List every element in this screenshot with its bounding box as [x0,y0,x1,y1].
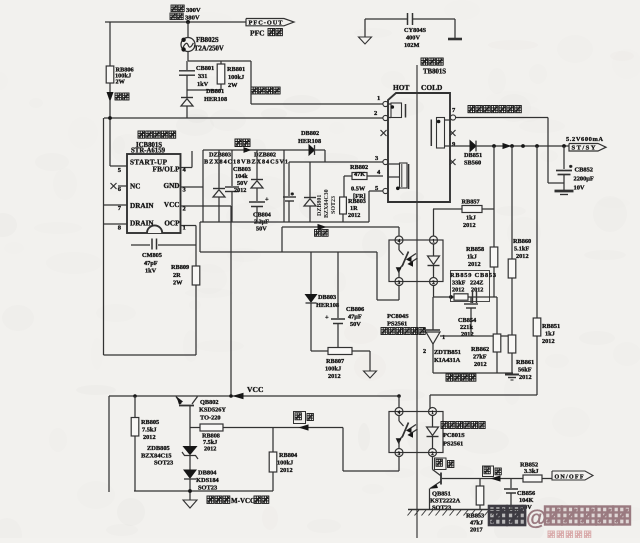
transistor QB851 KST2222A [440,473,442,485]
aux winding [400,163,408,188]
wire switch line to PC801 pin3 [342,428,344,472]
svg-text:100kJ: 100kJ [277,460,293,467]
svg-text:CB854: CB854 [458,317,477,324]
svg-text:56kF: 56kF [518,367,532,374]
svg-text:VCC: VCC [247,385,263,394]
wire KIA431 ref [440,335,512,337]
svg-text:DZB803: DZB803 [209,152,231,159]
pin 2 (PC801) [429,449,437,457]
wire PC801 pin2 to QB851 [432,457,434,470]
wire feedback node [433,296,497,298]
svg-text:VCC: VCC [164,201,180,209]
svg-text:RB809: RB809 [171,264,189,271]
svg-text:PC801S: PC801S [443,432,465,439]
svg-text:2012: 2012 [234,187,246,194]
resistor RB803 1R [343,176,345,197]
svg-text:RB851: RB851 [542,323,560,330]
wire to PC804 emitter [376,252,378,300]
svg-text:TO-220: TO-220 [200,415,221,422]
wire drain rail to transformer pin2 [104,117,383,119]
capacitor CB803 [231,150,233,186]
svg-text:104k: 104k [235,173,248,180]
svg-text:RB861: RB861 [516,359,534,366]
svg-text:ZDTB851: ZDTB851 [434,349,461,356]
wire RB851 to PC801 LED [430,394,537,396]
svg-text:50V: 50V [237,180,248,187]
svg-text:HER108: HER108 [316,302,339,309]
svg-text:1kJ: 1kJ [467,254,477,261]
shunt regulator ZDTB851 KIA431A [432,297,434,330]
secondary winding [437,118,445,149]
wire arrow on VCC rail [234,393,243,398]
svg-text:RB857: RB857 [462,199,480,206]
svg-text:NC: NC [130,183,140,191]
resistor RB804 [272,428,274,453]
resistor RB809 [195,226,197,267]
pin 8 DRAIN [104,223,128,225]
pin 1 OCP [181,225,197,227]
fuse FB802S [187,22,189,38]
svg-text:2012: 2012 [463,222,476,229]
svg-text:3.3kJ: 3.3kJ [524,468,539,475]
wire pin5 return [369,190,383,192]
svg-text:DRAIN: DRAIN [130,220,154,228]
svg-text:RB858: RB858 [466,246,484,253]
svg-text:CB801: CB801 [196,65,214,72]
svg-text:BZX84C18VBZX84C5V1: BZX84C18VBZX84C5V1 [204,159,288,166]
svg-text:2012: 2012 [461,331,474,338]
capacitor CB801 [186,61,188,70]
svg-text:T2A/250V: T2A/250V [194,46,224,53]
ground (CB852) [555,190,574,193]
capacitor CB802 [288,162,290,196]
svg-text:DB851: DB851 [464,152,482,159]
label 开关 (ON/OFF) [483,466,494,477]
svg-text:2: 2 [423,348,426,355]
svg-text:DB801: DB801 [206,88,224,95]
pin 1 (PC804) [430,236,438,244]
resistor RB801 [220,61,222,64]
svg-text:2R: 2R [173,272,181,279]
svg-text:RB860: RB860 [513,238,531,245]
svg-text:RB805: RB805 [141,419,159,426]
capacitor CY804S [365,18,408,20]
svg-text:DRAIN: DRAIN [130,202,154,210]
svg-text:QB851: QB851 [432,491,451,498]
resistor RB802 0.5W FR [367,175,383,177]
svg-text:2012: 2012 [328,373,341,380]
capacitor CM805 [131,244,150,246]
diode DB803 HER108 [310,252,312,294]
pin 4 FB/OLP [181,167,193,169]
wire to transformer pin3 [289,161,383,163]
svg-text:2: 2 [374,110,377,117]
svg-text:PS2561: PS2561 [443,441,463,448]
svg-text:2W: 2W [116,79,126,86]
phototransistor (PC801) [398,416,400,422]
svg-text:KSD526Y: KSD526Y [199,407,226,414]
wire PC804 pin2 to feedback [433,286,435,298]
pin 3 (PC801) [395,449,403,457]
svg-text:+: + [325,314,329,321]
svg-text:100kJ: 100kJ [228,74,244,81]
capacitor CB854 [470,297,472,303]
zener DZB801 BZX84C30 [309,162,311,197]
unused pin x-mark left [381,130,387,136]
label 误差放大 [446,374,453,381]
svg-text:QB802: QB802 [200,399,219,406]
wire isolation boundary hot/cold [416,65,418,538]
svg-text:331: 331 [198,73,207,80]
svg-text:CB804: CB804 [253,212,271,219]
label 稳压 [315,230,321,237]
label 待机光耦合器 PC801S PS2561 [441,422,447,429]
wire HV rail 300V [105,21,246,23]
svg-text:1: 1 [183,225,186,232]
svg-text:CY804S: CY804S [404,27,427,34]
wire source return bottom [104,354,197,356]
svg-text:5.2V600mA: 5.2V600mA [566,136,603,143]
svg-text:HER108: HER108 [204,96,227,103]
pin 6 NC with x-mark [118,185,127,187]
svg-text:*: * [569,164,573,172]
svg-text:100kJ: 100kJ [325,366,341,373]
svg-text:1: 1 [442,334,445,341]
ground (RB861) [505,374,519,376]
svg-text:PS2561: PS2561 [387,321,407,328]
pin 4 (PC804) [395,236,403,244]
resistor RB852 [523,475,542,482]
svg-text:2: 2 [183,206,186,213]
svg-text:47kJ: 47kJ [470,520,483,527]
svg-text:SOT23: SOT23 [331,196,337,214]
wire PC801 pin4 to VCC [398,396,400,408]
capacitor CB853 [472,291,474,303]
capacitor CB806 electrolytic [337,252,339,318]
diode DB802 HER108 [284,149,309,151]
unused pin x-marks right [450,130,456,136]
wire supply bottom [200,221,369,223]
svg-text:2017: 2017 [470,527,483,534]
svg-text:KDS184: KDS184 [196,477,220,484]
svg-text:*: * [291,192,295,200]
svg-text:1: 1 [377,95,380,102]
svg-text:OCP: OCP [164,220,180,228]
svg-text:FB802S: FB802S [196,37,219,44]
svg-text:DZB801: DZB801 [317,195,323,216]
svg-text:33kF: 33kF [452,280,466,287]
svg-text:RB802: RB802 [350,164,368,171]
svg-text:2012: 2012 [474,361,487,368]
resistor RB858 [493,146,495,247]
wire QB851 base rail [442,478,552,480]
resistor RB808 [200,424,223,431]
svg-text:COLD: COLD [421,83,442,92]
resistor RB862 [496,297,498,334]
label 开关 (M-VCC) [294,412,306,424]
svg-text:@: @ [526,507,546,530]
svg-text:CM805: CM805 [142,252,162,259]
svg-text:ZDB805: ZDB805 [147,445,170,452]
diode DB804 KDS184 [184,470,196,478]
resistor RB860 [511,146,513,259]
svg-text:5.1kF: 5.1kF [514,246,529,253]
label 开关机M-VCC控制 [207,496,214,503]
svg-text:104K: 104K [519,497,533,504]
resistor RB853 [479,479,481,487]
svg-text:2012: 2012 [542,338,555,345]
svg-text:2012: 2012 [280,467,293,474]
svg-text:CB856: CB856 [517,490,535,497]
wire output junctions [503,144,510,149]
pin 3 (PC804) [395,278,403,286]
svg-text:1kV: 1kV [145,268,157,275]
svg-text:2012: 2012 [452,287,464,294]
ground (left of CY804S) [364,19,366,37]
ground (DB804) [183,500,197,508]
wire supply box left [202,150,204,222]
svg-text:RB804: RB804 [279,452,298,459]
svg-text:SOT23: SOT23 [154,460,173,467]
svg-text:GND: GND [164,182,180,190]
wire supply box right [283,150,285,222]
svg-text:50V: 50V [350,321,361,328]
resistor RB857 [433,209,435,236]
capacitor CB804 electrolytic [249,201,265,203]
svg-text:FB/OLP: FB/OLP [153,166,181,174]
optocoupler PC804S PS2561 [389,240,443,282]
watermark 头条 logo text [489,506,507,525]
svg-text:TB801S: TB801S [423,69,446,76]
svg-text:KIA431A: KIA431A [434,357,461,364]
svg-text:KST2222A: KST2222A [430,498,461,505]
resistor RB807 [328,348,352,355]
LED (PC801) [432,416,434,427]
pin 4 (PC801) [395,408,403,416]
svg-text:PFC-OUT: PFC-OUT [249,20,284,27]
svg-text:1kJ: 1kJ [545,331,555,338]
svg-text:ON/OFF: ON/OFF [555,474,584,480]
svg-text:10V: 10V [574,185,585,192]
wire VCC drop from pin2 [230,206,232,396]
wire supply to lower rail [199,222,201,252]
svg-text:RB803: RB803 [348,198,366,205]
zener ZDB805 BZX84C15 [184,447,197,455]
svg-text:PFC: PFC [250,29,265,38]
wire VCC left stub [108,396,110,492]
box around RB859/CB853 group [451,271,490,302]
svg-text:M-VCC: M-VCC [231,497,255,505]
op-amp U1 ICB801S STR-A6159 sub-power IC [127,154,181,233]
pin 5 terminal [383,188,388,193]
svg-text:2012: 2012 [348,212,360,219]
label 启动 with arrow [109,83,111,92]
label 待机300V [171,5,177,12]
svg-text:300V: 300V [186,7,201,14]
svg-text:DB803: DB803 [318,294,336,301]
resistor RB859 [454,294,468,300]
resistor RB851 [536,146,538,318]
wire filter bottom [311,350,370,352]
svg-text:7.5kJ: 7.5kJ [142,427,157,434]
pin 3 entry [383,159,388,164]
watermark bottom edge remnant [548,531,554,538]
svg-text:BZX84C30: BZX84C30 [324,189,330,218]
resistor RB806 [109,22,111,66]
wire emitter rail 开关 [190,427,343,429]
svg-text:221k: 221k [460,324,473,331]
svg-text:CB852: CB852 [575,167,593,174]
wire pin7 return [456,117,549,119]
svg-text:1kV: 1kV [197,81,209,88]
pin 1 (PC801) [429,408,437,416]
svg-text:2W: 2W [173,280,183,287]
label 开机380V [170,13,176,20]
svg-text:PC804S: PC804S [387,313,409,320]
wire clamp top [188,60,251,62]
primary winding [391,103,402,118]
junction dots on VCC rail [229,394,233,398]
pin 5 START-UP [110,165,127,167]
svg-text:2W: 2W [228,82,238,89]
wire clamp bottom [187,89,221,91]
diode DB851 SB560 [450,145,470,147]
capacitor CB852 electrolytic [563,146,565,169]
svg-text:2012: 2012 [516,253,529,260]
optocoupler PC801S PS2561 [389,412,443,453]
transistor QB802 KSD526Y [179,405,194,407]
LED (PC804) [433,244,435,256]
svg-text:DB802: DB802 [301,130,319,137]
svg-text:27kF: 27kF [473,354,487,361]
resistor RB805 [134,396,136,418]
pin 7 DRAIN [104,204,128,206]
label 开关 (QB851) [435,458,447,470]
wire supply top 供电 [203,149,284,151]
svg-text:102M: 102M [404,42,419,49]
node PFC-OUT terminal [246,19,294,26]
svg-text:RB807: RB807 [326,358,344,365]
capacitor CB856 [510,479,512,489]
svg-text:BZX84C15: BZX84C15 [141,453,172,460]
junction dot at fuse tap [186,20,190,24]
ground (right of CY804S) [454,19,456,38]
node ST/SY output arrow [569,144,606,152]
pin 2 VCC [181,205,232,207]
svg-text:2012: 2012 [143,434,156,441]
svg-text:50V: 50V [256,226,267,233]
wire left drain bus [103,118,105,355]
svg-text:2012: 2012 [519,374,532,381]
svg-text:47μF: 47μF [348,314,362,321]
svg-text:CB806: CB806 [346,306,364,313]
svg-text:HOT: HOT [393,83,409,92]
svg-text:47K: 47K [354,171,365,178]
svg-text:47pF: 47pF [144,260,158,267]
diode DB801 [186,90,188,97]
svg-text:DB804: DB804 [198,470,217,477]
svg-text:SOT23: SOT23 [432,505,451,512]
svg-text:CB803: CB803 [233,166,251,173]
svg-text:ST/SY: ST/SY [572,145,596,152]
svg-text:HER108: HER108 [298,138,321,145]
ground hatched (QB851) [408,509,522,511]
svg-text:0.5W: 0.5W [351,186,366,193]
label 尖峰钳位 [251,87,257,94]
svg-text:2012: 2012 [468,261,481,268]
pin 2 (PC804) [430,278,438,286]
svg-text:2200μF: 2200μF [574,176,594,183]
svg-text:400V: 400V [406,35,420,42]
label 变压器 [421,58,428,65]
svg-text:STR-A6159: STR-A6159 [131,148,166,155]
svg-text:2012: 2012 [204,446,216,453]
resistor RB861 [508,335,516,353]
svg-text:224Z: 224Z [470,280,483,287]
svg-text:SB560: SB560 [464,160,481,167]
wire error amp bottom [433,372,513,374]
svg-text:+: + [265,196,269,203]
pin 2 terminal [383,115,388,120]
svg-text:RB859 CB853: RB859 CB853 [450,272,496,279]
ground (RB807) [369,351,371,371]
label 二次侧整流滤波 [468,106,475,113]
node ON/OFF terminal [552,471,593,480]
svg-text:RB853: RB853 [466,513,484,520]
svg-text:1kJ: 1kJ [466,215,476,222]
pin 7 terminal [450,115,455,120]
wire clamp to pin1 [250,61,252,104]
svg-text:RB862: RB862 [471,346,489,353]
wire VCC rail [109,395,399,397]
transformer TB801S [388,93,450,202]
svg-text:1R: 1R [350,205,358,212]
wire switch bottom [134,490,273,492]
phototransistor (PC804) [398,244,400,250]
pin 3 GND [181,186,204,188]
pin 1 terminal [383,101,388,106]
svg-text:RB801: RB801 [227,66,245,73]
wire 稳压 to optocoupler PC804 [281,227,283,252]
label 副电源厚膜 [138,131,145,138]
